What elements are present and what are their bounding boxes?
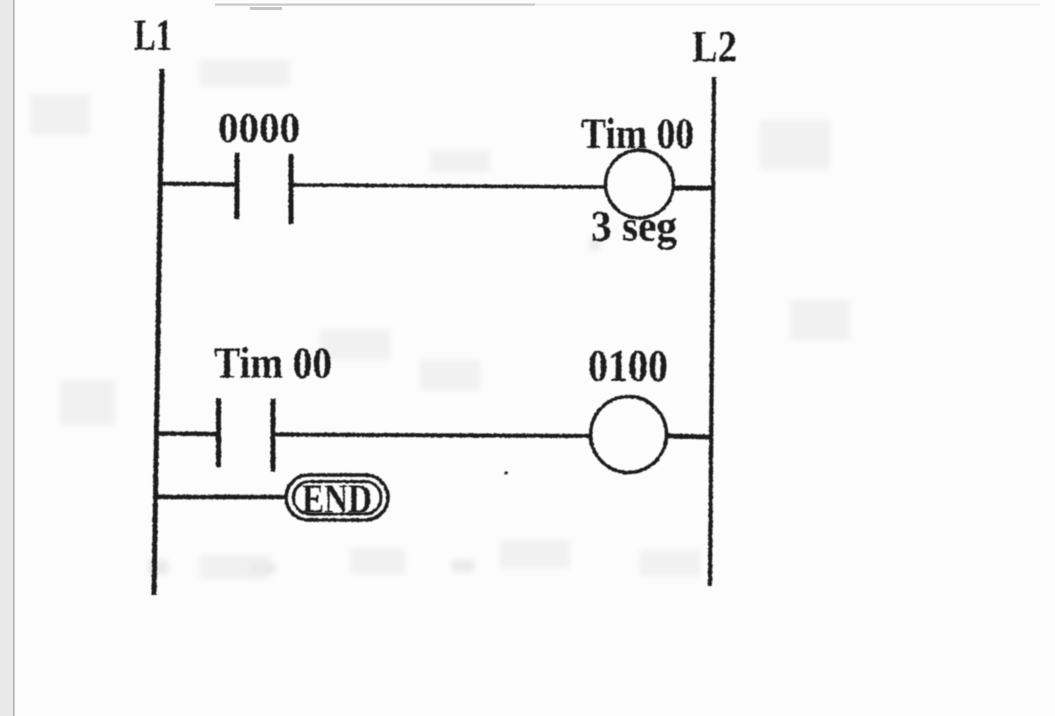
svg-text:0000: 0000	[218, 106, 300, 152]
svg-text:Tim 00: Tim 00	[214, 339, 332, 388]
svg-text:Tim 00: Tim 00	[581, 111, 694, 158]
svg-text:END: END	[302, 476, 372, 522]
svg-text:L1: L1	[134, 11, 172, 60]
svg-text:3 seg: 3 seg	[591, 204, 677, 251]
svg-text:L2: L2	[692, 22, 737, 71]
svg-text:0100: 0100	[588, 341, 668, 391]
